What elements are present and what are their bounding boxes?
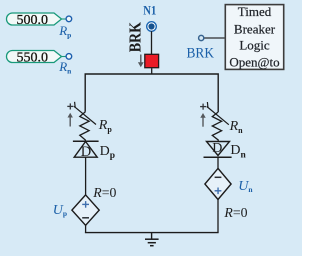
svg-text:BRK: BRK [187,45,215,61]
svg-text:500.0: 500.0 [16,13,48,28]
svg-text:Open@to: Open@to [229,54,279,69]
svg-text:R=0: R=0 [92,185,116,200]
svg-text:BRK: BRK [126,21,145,52]
svg-text:Breaker: Breaker [234,22,276,37]
svg-text:550.0: 550.0 [16,50,48,65]
svg-text:D: D [212,141,222,156]
svg-text:N1: N1 [143,3,156,18]
svg-text:Timed: Timed [238,4,272,19]
svg-text:Logic: Logic [239,38,270,53]
svg-text:R=0: R=0 [223,205,247,220]
